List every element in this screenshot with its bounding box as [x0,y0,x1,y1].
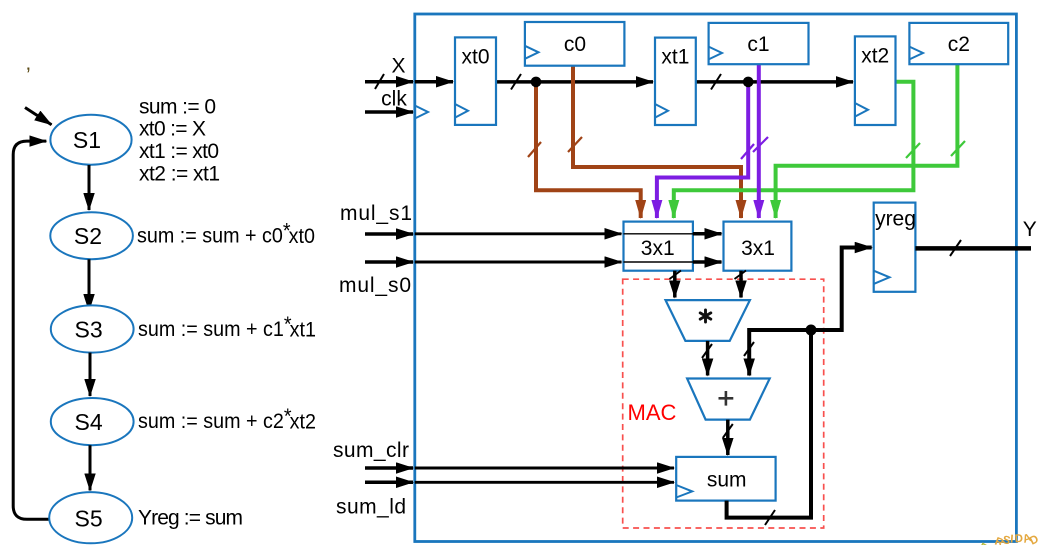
clk triangle on outer box [415,106,428,119]
wire feedback up to yreg [811,248,872,331]
svg-text:mul_s1: mul_s1 [340,202,412,225]
wire sum_ld external [365,481,413,485]
slash mult out [702,344,712,358]
svg-text:Yreg := sum: Yreg := sum [138,507,243,530]
wire xt0 to xt1 [496,80,653,84]
wire X to xt0 [415,80,453,84]
svg-text:Y: Y [1023,218,1037,241]
register c0 [525,22,625,66]
svg-text:xt1: xt1 [661,46,689,69]
wire mux1 out to multiplier [673,271,677,298]
wire mux2 out to multiplier [739,271,743,298]
brown wire c0 to mux2 [573,64,741,218]
state S1 [50,115,131,165]
wire S1 to S2 [88,165,91,210]
slash brown1 [528,142,541,157]
svg-text:c0: c0 [564,33,586,56]
junction dot xt0 tap [531,77,542,88]
slash Y [950,240,961,256]
svg-text:xt2: xt2 [861,45,889,68]
svg-text:sum := sum + c0*xt0: sum := sum + c0*xt0 [137,219,315,248]
green wire c2 to mux2 [776,64,958,218]
wire feedback to adder right input [749,330,811,376]
slash sum loop [765,510,775,525]
svg-text:xt0 := X: xt0 := X [139,118,206,141]
wire mul_s1 external [365,232,413,236]
wire multiplier to adder [706,341,710,376]
svg-text:S3: S3 [75,316,103,342]
adder [687,379,770,420]
svg-text:clk: clk [381,88,407,111]
slash mux2 out [735,271,747,280]
svg-text:S1: S1 [73,127,101,153]
brown wire xt0 tap to mux1 [536,82,641,218]
svg-text:sum := sum + c1*xt1: sum := sum + c1*xt1 [138,312,316,341]
purple wire c1 to mux2 [757,64,761,218]
svg-text:sum := sum + c2*xt2: sum := sum + c2*xt2 [138,405,316,434]
initial arrow into S1 [25,108,52,125]
slash green1 [906,143,920,158]
state S3 [51,305,134,352]
wire X input external [365,80,413,84]
slash green2 [951,141,965,156]
slash mux1 out [670,271,682,280]
wire mul_s1 internal to mux1 [415,232,622,235]
svg-text:I: I [1010,534,1014,545]
svg-text:S5: S5 [75,505,103,531]
svg-text:MAC: MAC [628,400,677,425]
junction dot xt1 tap [743,77,754,88]
MAC dashed boundary [623,279,824,528]
svg-text:c1: c1 [747,33,769,56]
wire sum_clr external [365,466,413,470]
slash brown2 [568,137,582,152]
slash adder out [723,424,733,438]
wire clk input external [365,110,413,114]
slash X bus [375,74,384,89]
multiplier [666,300,750,341]
wire S4 to S5 [89,445,92,490]
slash purple2 [753,137,768,152]
wire adder to sum [726,420,730,455]
watermark fragment bottom right [977,532,1041,545]
svg-text:3x1: 3x1 [641,237,675,260]
wire mux1 select pass 2 to mux2 [693,260,722,264]
wire xt1 to xt2 [696,80,853,84]
wire sum out feedback loop [727,330,811,518]
state S2 [50,212,133,259]
slash purple1 [741,144,754,159]
loop wire S5 to S1 [13,141,50,519]
svg-text:S4: S4 [75,409,103,435]
outer datapath box [415,14,1017,542]
slash adder right input [744,342,754,356]
svg-text:sum := 0: sum := 0 [139,96,216,119]
svg-text:X: X [391,55,405,78]
green wire xt2 out to mux1 [674,82,914,218]
wire S2 to S3 [88,259,91,311]
svg-text:c2: c2 [948,33,970,56]
register xt1 [655,38,696,125]
mux1 3x1 [624,222,693,271]
wire sum_clr internal to sum [415,467,674,470]
svg-text:’: ’ [26,64,31,87]
state S4 [51,398,134,445]
wire Y output [915,246,1031,251]
register c1 [709,23,809,64]
register xt0 [455,37,496,125]
junction dot feedback [806,325,817,336]
slash after xt1 [711,74,721,90]
svg-text:sum_ld: sum_ld [336,496,406,519]
S1 action list [139,96,220,186]
svg-text:xt0: xt0 [461,46,489,69]
wire mul_s0 external [365,260,413,264]
wire sum_ld internal to sum [415,481,674,484]
svg-text:sum: sum [707,469,747,492]
svg-text:S2: S2 [74,223,102,249]
svg-text:mul_s0: mul_s0 [339,274,411,297]
slash after xt0 [511,74,521,90]
register yreg [874,203,916,292]
wire S3 to S4 [89,353,92,396]
svg-text:sum_clr: sum_clr [333,439,409,462]
purple wire xt1 tap to mux1 [657,82,748,218]
svg-text:3x1: 3x1 [741,237,775,260]
state S5 [49,492,132,543]
register sum [676,457,775,501]
svg-text:yreg: yreg [875,208,916,231]
register c2 [909,23,1008,64]
mux2 3x1 [724,222,792,271]
wire mul_s0 internal to mux1 [415,261,622,264]
wire mux1 select pass to mux2 [693,232,722,236]
svg-text:xt1 := xt0: xt1 := xt0 [139,140,219,163]
svg-text:xt2 := xt1: xt2 := xt1 [139,162,220,185]
register xt2 [855,36,896,125]
